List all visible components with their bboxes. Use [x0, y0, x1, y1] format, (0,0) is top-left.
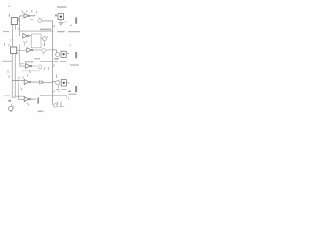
arrow below G2	[24, 41, 26, 46]
Q7 emitter mark	[10, 110, 12, 112]
wire G3b output	[32, 65, 37, 67]
transistor Q4	[56, 53, 60, 57]
label ticks above G4	[19, 74, 28, 78]
wire Q3 to bus	[46, 49, 53, 51]
inverter G2	[23, 33, 31, 38]
wire rails to G4 input	[12, 80, 24, 82]
node a	[8, 5, 10, 6]
header text	[57, 6, 67, 8]
wire U1 to Q2	[41, 37, 43, 39]
junction dot bus y50	[52, 49, 53, 50]
label under stage2	[54, 58, 58, 60]
transistor Q3	[42, 49, 46, 53]
wire B2 left lead down	[11, 54, 13, 98]
arrow below G3b	[29, 70, 30, 72]
wire B2 stub right	[17, 49, 19, 51]
net label OUT2 (vertical)	[75, 52, 77, 58]
wire B1 left lead down to B2	[12, 25, 14, 47]
label dashes above G3b	[24, 61, 33, 62]
wire stage3 output	[66, 82, 69, 84]
transistor Q7	[9, 104, 13, 110]
label bottom small	[38, 111, 43, 113]
label 3 above G1	[31, 10, 33, 12]
wire gate column vertical	[19, 45, 21, 67]
wire B2 lead corner	[12, 97, 16, 99]
wire bus tap to stage2	[53, 50, 57, 52]
wire bus tap stage3	[53, 81, 56, 83]
wire B1 output stub	[17, 20, 19, 22]
junction dot bus-rail	[52, 31, 53, 32]
transistor Q1	[38, 18, 42, 23]
wire bottom long rail	[4, 95, 67, 98]
label under stub	[17, 53, 19, 55]
label right dash 2	[70, 64, 79, 65]
label bottom tick	[43, 110, 45, 112]
ground dashes stage3	[56, 89, 66, 91]
transistor Q5	[38, 65, 42, 69]
junction dot under Q3	[43, 53, 44, 54]
wire left tap	[3, 60, 13, 62]
wire gate drop	[18, 82, 20, 95]
label right dash	[68, 31, 80, 32]
label bits bottom cluster	[57, 102, 61, 107]
label 17	[8, 100, 11, 102]
node tick bottom right	[68, 97, 70, 100]
bus tick stage3	[53, 91, 55, 93]
block B2	[11, 47, 17, 54]
inverter G1	[20, 13, 31, 18]
label 14 with tick	[36, 11, 38, 13]
inverter G3b	[20, 64, 32, 69]
ground under M1	[59, 22, 64, 25]
wire Q6 lead down	[58, 85, 60, 89]
net label OUT3 (vertical)	[75, 86, 77, 92]
wire G1 output	[30, 15, 34, 17]
wire D1 to bus	[44, 81, 53, 83]
label right of ground	[65, 21, 67, 23]
label above G1	[21, 11, 23, 13]
junction dot bus y82	[52, 81, 53, 82]
net label IN (vertical)	[37, 98, 39, 104]
wire G4 output	[31, 81, 40, 83]
arrow below G5	[28, 103, 29, 105]
label 15	[8, 44, 10, 46]
label above stage3	[56, 75, 58, 78]
tap dash on lead	[10, 39, 13, 41]
label 15a	[4, 43, 6, 45]
meter M1 box with dot	[58, 14, 64, 20]
wire B2 right lead down	[14, 54, 16, 97]
ground dashes stage2	[54, 60, 66, 62]
diode D1	[40, 81, 43, 84]
wire low dash	[22, 70, 40, 72]
label mid dash	[57, 31, 64, 32]
meter M3 box with dot	[61, 80, 66, 86]
label right dash 3	[68, 94, 76, 95]
label beside Q7	[13, 106, 15, 108]
node 13 label	[8, 14, 10, 16]
wire stage2 output	[66, 53, 69, 55]
label dash over wire	[34, 58, 40, 59]
node k tick on bus	[53, 25, 55, 27]
bus vertical line	[52, 22, 54, 105]
wire corner right end	[66, 96, 68, 98]
label 2a	[7, 70, 9, 72]
node label above stub	[17, 18, 19, 19]
junction dot on input	[17, 80, 19, 82]
transistor Q2	[43, 37, 47, 41]
meter M2 box with dot	[61, 51, 66, 57]
label bits	[45, 67, 49, 69]
wire Q1 to bus	[42, 21, 53, 22]
bottom cluster transistor Q8	[54, 104, 57, 107]
ground dash bottom cluster	[59, 106, 64, 108]
label 2 above G1	[26, 11, 28, 13]
bus tick label	[53, 65, 55, 67]
wire mid horizontal	[40, 61, 53, 63]
node tick right mid	[69, 44, 71, 46]
wire horizontal rail	[20, 30, 53, 32]
junction dot under Q2	[44, 44, 45, 45]
page background	[0, 0, 85, 120]
arrow mid drop	[21, 88, 22, 90]
block B1	[11, 18, 17, 25]
wire B1 right lead	[15, 25, 17, 30]
transistor Q6	[56, 81, 60, 85]
wire G5 output	[31, 98, 36, 100]
net label OUT1 (vertical)	[75, 17, 77, 23]
label 2b	[8, 76, 10, 78]
inverter G4	[24, 80, 30, 85]
wire corner to G5	[19, 96, 25, 100]
node mark top right	[70, 25, 72, 26]
label 10	[55, 15, 57, 17]
label right of Q2	[46, 36, 48, 37]
label left margin dash	[3, 31, 9, 32]
inverter G3	[20, 48, 33, 53]
label dash left of G3b	[20, 63, 24, 64]
arrowhead on G1 output	[34, 15, 35, 16]
label tick left of line	[17, 28, 19, 30]
node mark right	[68, 91, 70, 93]
wire input vertical to gates	[19, 16, 21, 36]
inverter G5	[24, 97, 30, 102]
block U1	[31, 34, 41, 48]
label over rail	[40, 29, 51, 31]
wire short dash	[30, 19, 33, 21]
wire M1 lead down	[60, 20, 62, 22]
label beside arrow	[26, 41, 28, 42]
wire G3 output	[33, 49, 42, 51]
wire Q2 emitter down	[44, 41, 46, 45]
